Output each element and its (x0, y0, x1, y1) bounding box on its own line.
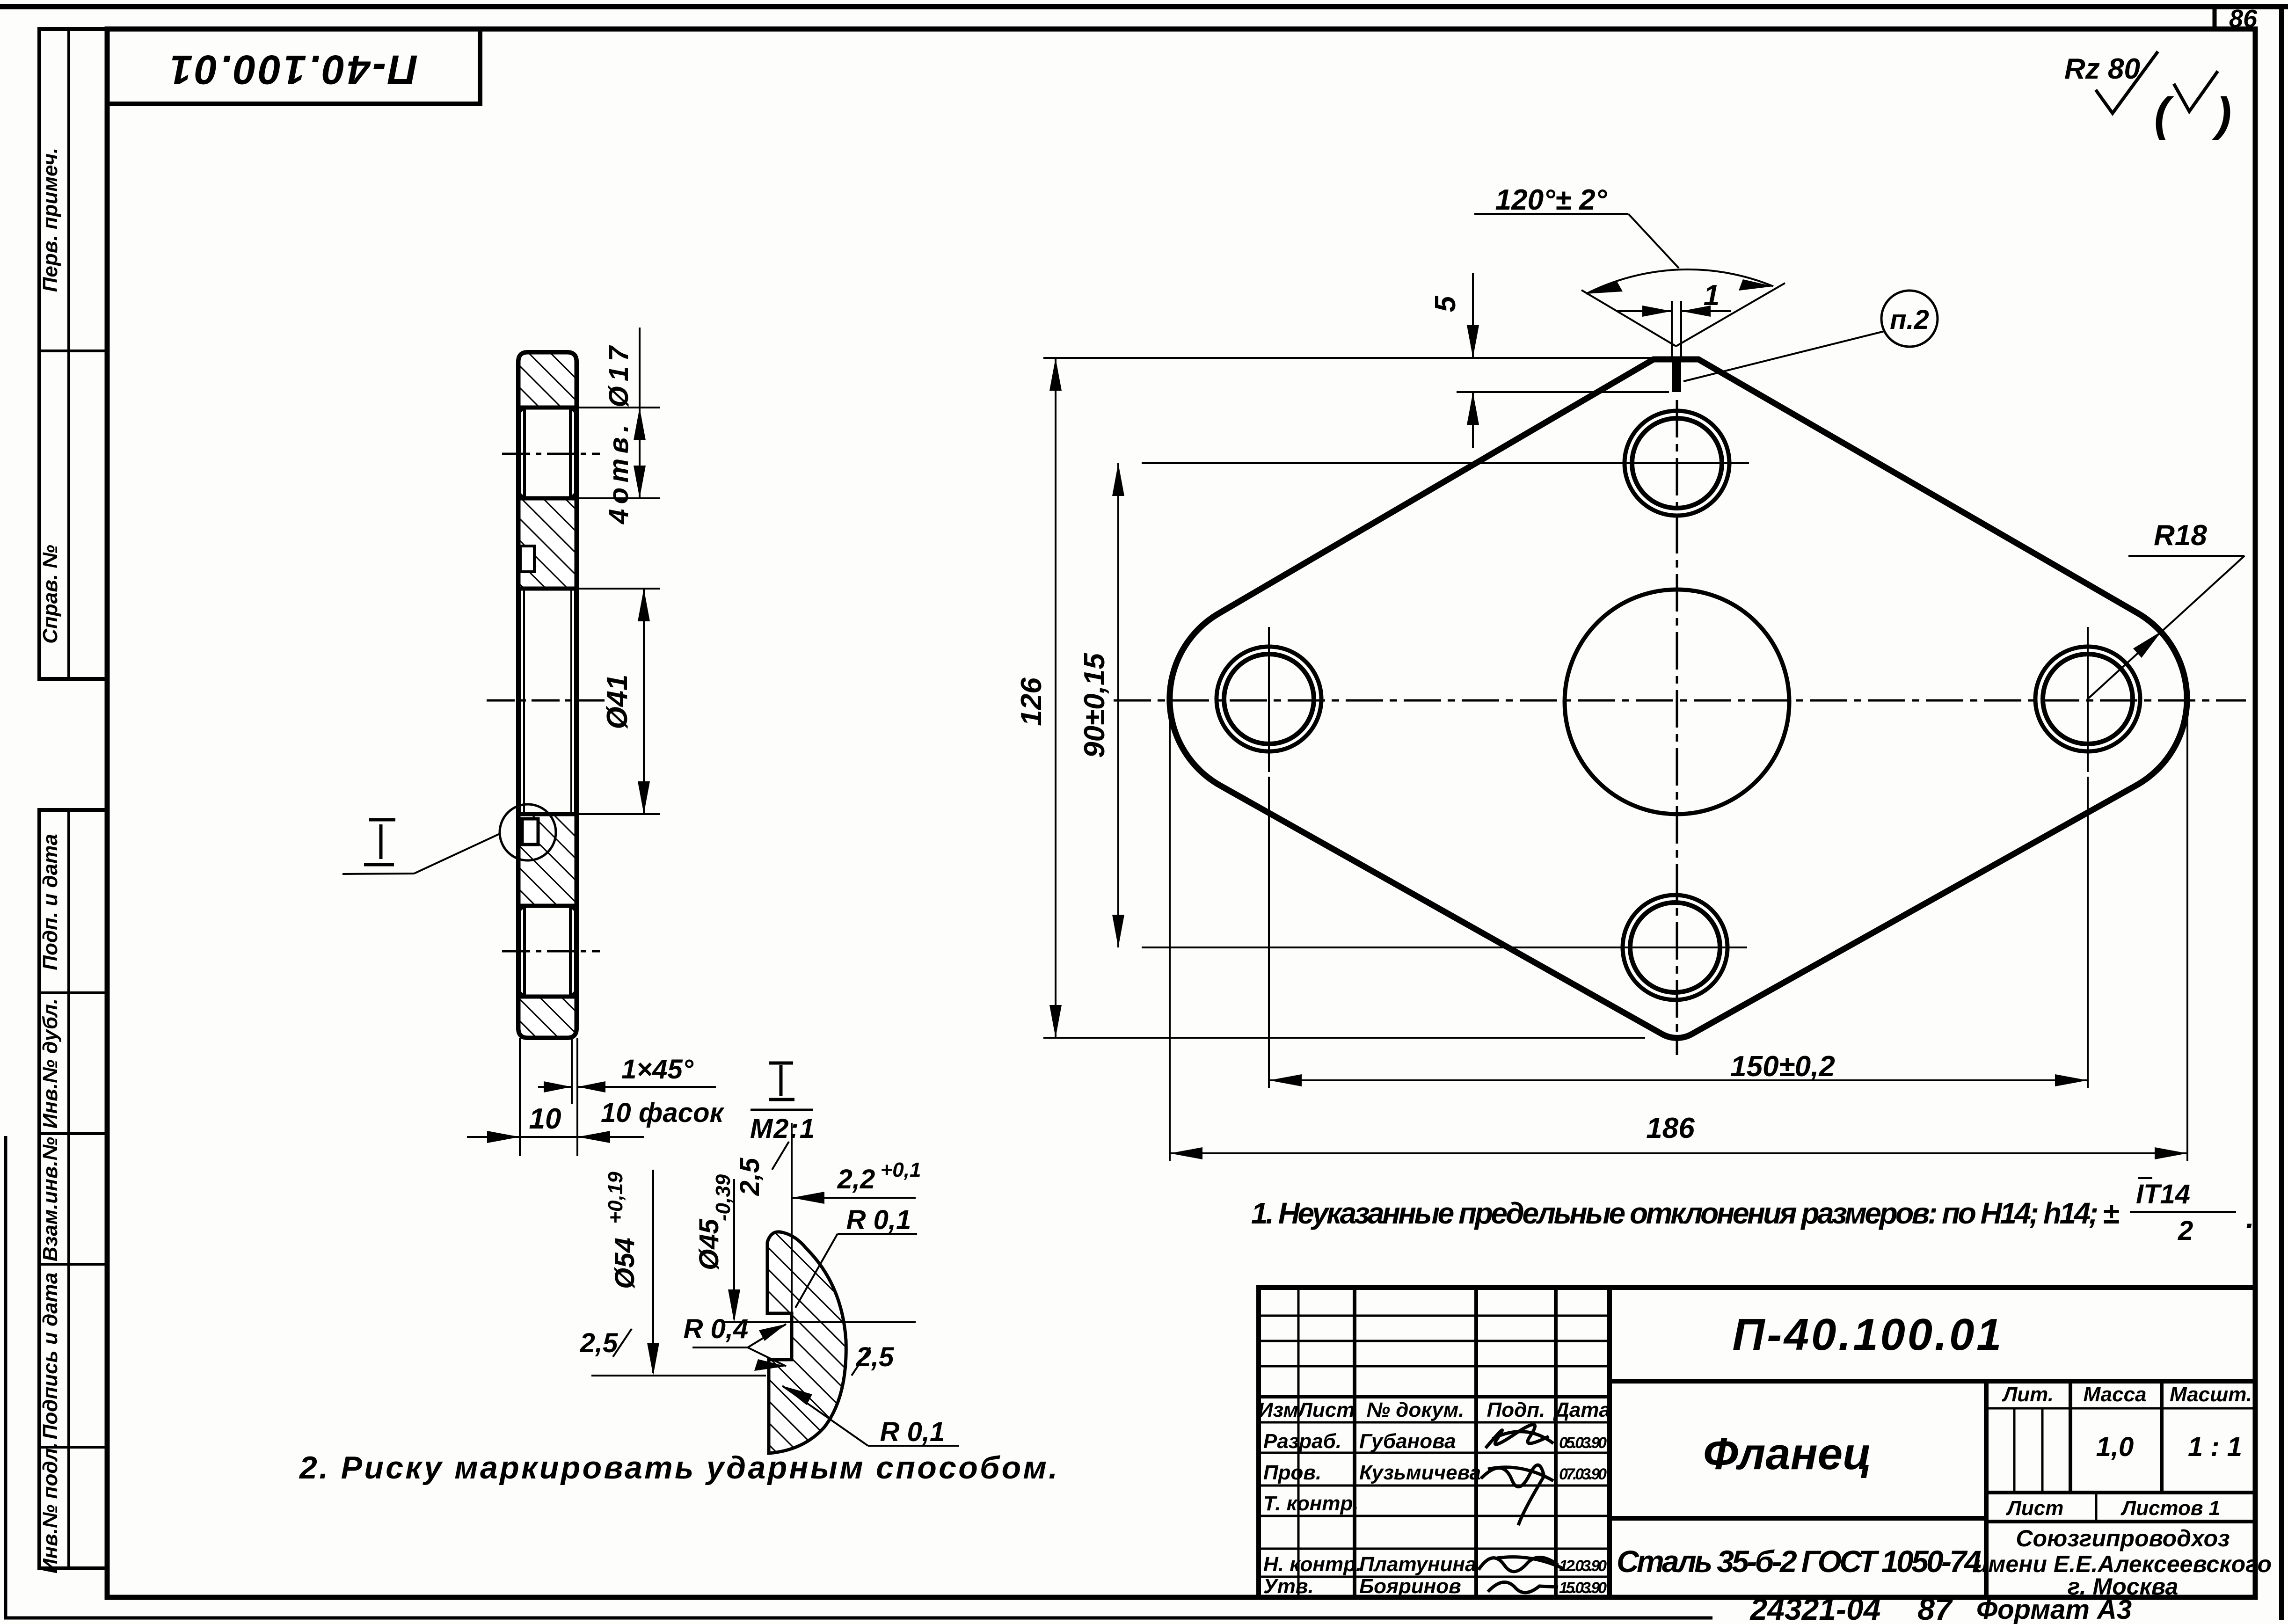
svg-text:126: 126 (1015, 677, 1048, 726)
svg-text:+0,19: +0,19 (604, 1172, 627, 1224)
svg-text:12.03.90: 12.03.90 (1559, 1557, 1607, 1575)
svg-text:2,5: 2,5 (735, 1158, 765, 1196)
dimension Ø54+0.19 (604, 1170, 659, 1376)
title row Утв (1263, 1575, 1607, 1598)
svg-text:Лист: Лист (2006, 1497, 2064, 1520)
svg-text:Инв.№ дубл.: Инв.№ дубл. (39, 998, 62, 1129)
roughness 2.5 top rotated (735, 1142, 789, 1196)
dimension Ø45-0.39 (694, 1174, 740, 1322)
dimension 1 at tip (1617, 279, 1731, 360)
svg-text:Платунина: Платунина (1359, 1553, 1477, 1576)
svg-text:07.03.90: 07.03.90 (1559, 1465, 1607, 1483)
svg-text:Справ. №: Справ. № (39, 545, 62, 643)
title Лист Листов (2006, 1497, 2220, 1520)
Rz 80 surface mark (2064, 51, 2158, 113)
bottom hole opening walls (518, 906, 576, 997)
svg-text:Формат А3: Формат А3 (1976, 1595, 2132, 1624)
label Перв. примеч. (39, 148, 62, 292)
title block outer (1259, 1288, 2255, 1597)
sheet outer border bottom (4, 1617, 1712, 1620)
label Справ. № (39, 545, 62, 643)
svg-text:10 фасок: 10 фасок (601, 1098, 725, 1128)
sheet outer border right (2279, 7, 2284, 1620)
side view centerline bottom hole (502, 950, 600, 953)
svg-text:П-40.100.01: П-40.100.01 (170, 47, 418, 93)
main vertical centerline (1676, 400, 1678, 1055)
footer numbers (1749, 1592, 2132, 1624)
title Лит Масса Масшт (2002, 1383, 2252, 1462)
title doc number (1733, 1310, 2002, 1360)
note 1 (1251, 1178, 2254, 1246)
sheet outer border top (0, 4, 2288, 9)
svg-text:1,0: 1,0 (2096, 1432, 2134, 1462)
bottom cap hatched (518, 997, 576, 1038)
svg-text:Лист: Лист (1297, 1398, 1355, 1421)
bore opening lines (524, 589, 571, 814)
left margin column block B (39, 810, 107, 1568)
svg-text:Листов 1: Листов 1 (2120, 1497, 2220, 1520)
svg-text:05.03.90: 05.03.90 (1559, 1434, 1607, 1452)
svg-text:Ø54: Ø54 (610, 1238, 640, 1289)
svg-text:120°± 2°: 120°± 2° (1495, 184, 1608, 216)
svg-text:Ø41: Ø41 (601, 674, 634, 729)
svg-text:R 0,4: R 0,4 (684, 1314, 749, 1344)
groove notch lower (522, 819, 538, 845)
bottom bolt hole (1603, 895, 1747, 1000)
title header texts (1258, 1398, 1610, 1421)
svg-text:2,5: 2,5 (580, 1328, 618, 1358)
svg-text:Rz 80: Rz 80 (2064, 53, 2140, 85)
svg-text:Подпись и дата: Подпись и дата (39, 1273, 62, 1440)
svg-text:М2:1: М2:1 (750, 1114, 815, 1144)
left bolt hole (1217, 627, 1321, 772)
block between bore and bottom hole hatched (518, 814, 576, 906)
detail circle I (500, 804, 556, 860)
svg-text:15.03.90: 15.03.90 (1559, 1579, 1607, 1597)
svg-text:Подп. и дата: Подп. и дата (39, 834, 62, 970)
svg-text:Ø45: Ø45 (694, 1218, 724, 1270)
label Взам. инв. № (39, 1137, 62, 1261)
title block lines (1259, 1288, 2255, 1597)
svg-text:87: 87 (1917, 1592, 1953, 1624)
svg-text:1: 1 (1704, 279, 1720, 312)
svg-text:Дата: Дата (1552, 1398, 1610, 1421)
dimension R18 (2089, 519, 2244, 698)
svg-text:Сталь 35-б-2 ГОСТ 1050-74: Сталь 35-б-2 ГОСТ 1050-74 (1617, 1544, 1982, 1579)
svg-text:R 0,1: R 0,1 (880, 1417, 945, 1447)
svg-text:Лит.: Лит. (2002, 1383, 2054, 1406)
block between top hole and bore hatched (518, 498, 576, 589)
side view centerline top hole (502, 453, 600, 455)
top bolt hole (1605, 411, 1749, 516)
page number box 86 (2215, 5, 2258, 33)
svg-text:П-40.100.01: П-40.100.01 (1733, 1310, 2002, 1360)
svg-text:90±0,15: 90±0,15 (1078, 653, 1111, 758)
label Инв.№ дубл. (39, 998, 62, 1129)
dimension R0.1 top (795, 1205, 917, 1308)
dimension 126 (1015, 358, 1659, 1038)
dimension 1x45 10 фасок (538, 1038, 725, 1128)
left margin column block A (39, 29, 107, 679)
svg-text:Инв.№ подл.: Инв.№ подл. (39, 1442, 62, 1573)
svg-text:1 : 1: 1 : 1 (2188, 1432, 2242, 1462)
svg-text:Взам.инв.№: Взам.инв.№ (39, 1137, 62, 1261)
svg-text:R18: R18 (2154, 519, 2207, 552)
side view outline (518, 352, 576, 1038)
title company (1974, 1525, 2272, 1600)
dimension Ø41 (576, 589, 660, 814)
dimension R0.4 (684, 1314, 786, 1371)
main horizontal centerline (1114, 699, 2246, 702)
dimension R0.1 bottom (782, 1386, 959, 1447)
label Инв.№ подл. (39, 1442, 62, 1573)
svg-text:.: . (2246, 1201, 2254, 1235)
top-left stamp box (107, 29, 480, 104)
riska mark at top vertex (1672, 360, 1681, 392)
svg-text:5: 5 (1429, 295, 1462, 312)
title row Н.контр (1263, 1553, 1607, 1576)
top hole opening walls (518, 408, 576, 498)
svg-text:2. Риску маркировать ударным: 2. Риску маркировать ударным способом. (299, 1450, 1057, 1486)
label Подп. и дата (39, 834, 62, 970)
stamp text П-40.100.01 rotated 180 (170, 47, 418, 93)
side view centerline center (487, 699, 608, 702)
svg-text:Союзгипроводхоз: Союзгипроводхоз (2016, 1525, 2230, 1551)
roughness 2.5 left (580, 1328, 632, 1358)
svg-text:-0,39: -0,39 (712, 1174, 735, 1221)
detail groove wall line (791, 1123, 793, 1340)
roughness 2.5 right (852, 1342, 894, 1376)
detail Ø45 line (722, 1321, 916, 1323)
svg-text:Кузьмичева: Кузьмичева (1359, 1461, 1481, 1484)
svg-text:Губанова: Губанова (1359, 1430, 1456, 1453)
title row Т.контр (1263, 1492, 1359, 1515)
dimension 2.2+0.1 (792, 1158, 921, 1204)
groove notch upper (520, 546, 534, 572)
dimension 4отв Ø17 (576, 328, 660, 524)
svg-text:+0,1: +0,1 (881, 1158, 921, 1181)
dimension 10 (467, 1038, 644, 1156)
svg-text:Изм: Изм (1258, 1398, 1298, 1421)
dimension 120°±2° (1474, 184, 1785, 346)
dimension 150±0.2 (1269, 777, 2088, 1088)
svg-text:Масшт.: Масшт. (2170, 1383, 2252, 1406)
svg-text:Перв. примеч.: Перв. примеч. (39, 148, 62, 292)
central hole (1565, 590, 1789, 814)
title name Фланец (1703, 1429, 1872, 1479)
svg-text:2,5: 2,5 (856, 1342, 894, 1372)
right bolt hole (2035, 627, 2140, 772)
sheet outer border left (partial) (4, 1136, 7, 1618)
svg-text:150±0,2: 150±0,2 (1730, 1050, 1835, 1083)
svg-text:п.2: п.2 (1890, 305, 1929, 335)
svg-text:1. Неуказанные предельные от: 1. Неуказанные предельные отклонения раз… (1251, 1196, 2119, 1230)
svg-text:24321-04: 24321-04 (1749, 1592, 1881, 1624)
svg-text:186: 186 (1646, 1112, 1695, 1144)
svg-text:R 0,1: R 0,1 (846, 1205, 911, 1235)
(√) mark (2154, 71, 2231, 140)
svg-text:IT14: IT14 (2136, 1179, 2190, 1209)
dimension 90±0.15 (1078, 463, 1623, 947)
flange outline (1170, 359, 2187, 1038)
svg-text:2: 2 (2178, 1216, 2193, 1246)
balloon п.2 (1683, 291, 1938, 381)
top cap hatched (518, 352, 576, 408)
svg-text:10: 10 (529, 1103, 561, 1135)
svg-text:Фланец: Фланец (1703, 1429, 1872, 1479)
dimension 186 (1170, 716, 2187, 1161)
detail label I / M2:1 (750, 1063, 815, 1144)
svg-text:Пров.: Пров. (1263, 1461, 1321, 1484)
svg-text:Т. контр.: Т. контр. (1263, 1492, 1359, 1515)
svg-text:2,2: 2,2 (837, 1164, 875, 1194)
detail blob (767, 1232, 846, 1453)
title row Пров (1263, 1461, 1607, 1525)
dimension 5 (1429, 273, 1669, 448)
svg-text:№ докум.: № докум. (1367, 1398, 1465, 1421)
title material (1617, 1544, 1982, 1579)
svg-text:Масса: Масса (2083, 1383, 2146, 1406)
svg-text:Н. контр.: Н. контр. (1263, 1553, 1362, 1576)
svg-text:Бояринов: Бояринов (1359, 1575, 1461, 1598)
svg-text:Подп.: Подп. (1487, 1398, 1545, 1421)
label Подпись и дата (39, 1273, 62, 1440)
detail Ø54 line (591, 1375, 766, 1376)
detail leader to label I (342, 820, 500, 874)
note 2 (299, 1450, 1057, 1486)
svg-text:1×45°: 1×45° (621, 1054, 694, 1085)
title row Разраб (1263, 1425, 1607, 1453)
svg-text:Утв.: Утв. (1263, 1575, 1314, 1598)
svg-text:Разраб.: Разраб. (1263, 1430, 1341, 1453)
